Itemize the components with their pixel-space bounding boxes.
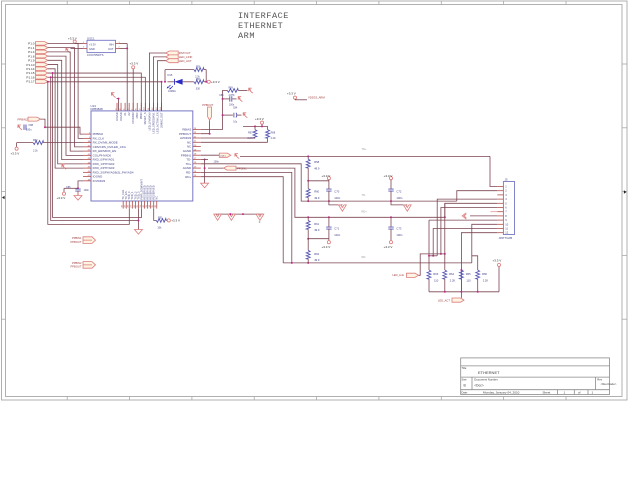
svg-text:R66: R66 bbox=[482, 272, 487, 276]
junction R64 LED_LINK bbox=[444, 253, 446, 255]
wire jog to R63 column bbox=[429, 255, 437, 257]
U13 bottom pin 32 RESERVED bbox=[144, 201, 146, 209]
junction R61 power bbox=[307, 238, 309, 240]
svg-text:110: 110 bbox=[466, 278, 471, 282]
svg-text:+3.3 V: +3.3 V bbox=[11, 152, 20, 156]
svg-text:PPBOUT: PPBOUT bbox=[202, 103, 213, 107]
U13 right pin 22 AVDD33 bbox=[193, 137, 201, 139]
LED_ACT flag shape bbox=[166, 59, 179, 63]
port flag shape P1.15 bbox=[36, 71, 49, 75]
svg-text:LED_ACT: LED_ACT bbox=[438, 299, 450, 303]
junction RD+ C71 bbox=[328, 216, 330, 218]
svg-text:R63: R63 bbox=[433, 272, 438, 276]
wire U13 bottom pin to ground bbox=[137, 209, 139, 230]
junction PPBOUT bbox=[209, 133, 211, 135]
U13 right pin 20 NC bbox=[193, 146, 201, 148]
wire P1 bus P1.4 to U13 bbox=[48, 52, 83, 151]
U13 right pin 14 RD- bbox=[193, 171, 201, 173]
wire U13 pin 14 to RD- bbox=[201, 172, 292, 263]
svg-text:R58: R58 bbox=[314, 160, 319, 164]
resistor R63 bbox=[427, 270, 431, 279]
svg-text:+3.3 V: +3.3 V bbox=[68, 36, 77, 40]
junction C86 node bbox=[77, 187, 79, 189]
U13 left pin 43 RXD_0/PHYAD1 bbox=[83, 159, 91, 161]
svg-text:2.2K: 2.2K bbox=[450, 278, 456, 282]
OSC1 pin 4 stub bbox=[116, 47, 120, 49]
U13 left pin 45 RXD_2/PHYAD3 bbox=[83, 167, 91, 169]
J5 pin 7 no-connect stub bbox=[491, 211, 498, 213]
wire rail to R67 bbox=[254, 126, 256, 129]
wire R63 column bbox=[428, 220, 430, 270]
wire power to C72 bbox=[390, 180, 392, 190]
ground below U13 bbox=[134, 230, 142, 235]
sheet outer border bbox=[2, 1, 628, 400]
svg-text:VDD33_ARM: VDD33_ARM bbox=[308, 95, 325, 99]
junction rail R66 bbox=[477, 291, 479, 293]
OSC1 pin 3 stub bbox=[116, 43, 120, 45]
svg-text:PPBIN1: PPBIN1 bbox=[72, 236, 82, 240]
svg-text:LED_ACT: LED_ACT bbox=[179, 59, 192, 63]
wire U13 pin 22 east bbox=[201, 137, 255, 139]
wire to LED_LINK flag bbox=[419, 254, 445, 275]
junction RD+ C73 bbox=[390, 216, 392, 218]
wire R69 to arrow bbox=[238, 89, 247, 91]
svg-text:IOVDD33: IOVDD33 bbox=[131, 112, 135, 124]
svg-text:100n: 100n bbox=[214, 161, 220, 164]
svg-text:J45TTGFB: J45TTGFB bbox=[499, 236, 513, 240]
wire +3.3V to R52 bbox=[17, 142, 33, 144]
wire power to C70 top bbox=[328, 180, 330, 190]
wire J5 pin 6 down bbox=[441, 208, 497, 254]
U13 left pin 48 IOVDD33 bbox=[83, 180, 91, 182]
wire R61 to power node bbox=[307, 229, 309, 238]
junction C70 TD- bbox=[328, 200, 330, 202]
R64 bottom lead bbox=[444, 279, 446, 292]
junction rail R64 bbox=[444, 291, 446, 293]
resistor R67 bbox=[253, 130, 257, 139]
svg-text:100MA: 100MA bbox=[168, 90, 176, 93]
svg-text:100n: 100n bbox=[396, 196, 402, 200]
ground at C86 bbox=[74, 196, 82, 201]
PPBIN1 offpage flag bbox=[224, 166, 236, 170]
LED_LINK flag shape bbox=[407, 273, 419, 277]
svg-text:INTERFACE: INTERFACE bbox=[238, 11, 289, 21]
U13 top pin 12 LED_SPEED/AN1 bbox=[152, 103, 154, 111]
svg-text:PPBOUT: PPBOUT bbox=[70, 240, 81, 244]
svg-text:X1: X1 bbox=[123, 112, 127, 116]
wire R67 R68 rail bbox=[243, 125, 268, 127]
border center marker right bbox=[624, 190, 627, 194]
capacitor C72 bbox=[388, 189, 393, 191]
U13 bottom pin 26 TXD_2 bbox=[134, 201, 136, 209]
junction R56/R57 bbox=[205, 81, 207, 83]
wire P1.15 branch to U13 top bbox=[53, 73, 142, 111]
ground arrow at C88 bbox=[18, 125, 22, 130]
ground arrow at C85 bbox=[238, 97, 242, 102]
wire TD+ to R58 bbox=[307, 156, 309, 159]
wire OSC1 OUT bbox=[120, 47, 128, 49]
+3.3V power symbol above U13 bbox=[132, 66, 135, 69]
connector J5 body bbox=[503, 182, 514, 235]
junction R60 TD- bbox=[307, 200, 309, 202]
capacitor C71 bbox=[326, 227, 331, 229]
oscillator OSC1 body bbox=[87, 40, 116, 52]
wire J5 pin 5 to RD+ bbox=[445, 203, 498, 217]
capacitor C70 bbox=[326, 189, 331, 191]
wire TD+ to J5 pin 1 bbox=[490, 156, 497, 186]
svg-text:D15: D15 bbox=[168, 73, 173, 77]
wire U13 pin 23 to PPBOUT flag bbox=[201, 120, 210, 134]
svg-text:+3.3 V: +3.3 V bbox=[57, 196, 66, 200]
U13 right pin 18 PPBIN1 bbox=[193, 154, 201, 156]
junction pin 17 bbox=[204, 159, 206, 161]
junction R63 column bbox=[428, 255, 430, 257]
OUT1 offpage flag bbox=[219, 153, 231, 157]
wire P1.17 bus down to U13 bottom bbox=[48, 82, 130, 225]
svg-text:TD+: TD+ bbox=[362, 147, 367, 151]
svg-text:C85: C85 bbox=[219, 95, 224, 97]
U13 left pin 40 CRS/CRS_DV/LED_CFG bbox=[83, 146, 91, 148]
svg-text:LED_ACT/AN_EN: LED_ACT/AN_EN bbox=[155, 112, 159, 133]
svg-text:49.9: 49.9 bbox=[314, 196, 320, 200]
svg-text:ETHERNET: ETHERNET bbox=[478, 370, 500, 375]
LED_LINK flag shape bbox=[166, 55, 179, 59]
svg-text:of: of bbox=[578, 391, 581, 395]
ground arrow mid right bbox=[403, 205, 411, 211]
junction P1.15 branch bbox=[52, 72, 54, 74]
wire U13 pin 17 bbox=[201, 159, 208, 161]
svg-text:R67: R67 bbox=[248, 132, 253, 135]
svg-text:INH: INH bbox=[109, 42, 114, 46]
junction pin6 at LED row bbox=[440, 253, 442, 255]
junction C84 bbox=[222, 114, 224, 116]
+3.3V power symbol at C72 bbox=[389, 177, 392, 180]
junction P1.16 branch bbox=[50, 76, 52, 78]
U13 bottom pin 34 RESERVED bbox=[150, 201, 152, 209]
junction RD- west bbox=[291, 262, 293, 264]
junction at LED row bbox=[161, 81, 163, 83]
svg-text:49.9: 49.9 bbox=[314, 258, 320, 262]
resistor R69 bbox=[227, 89, 238, 93]
svg-text:Document Number: Document Number bbox=[474, 378, 498, 382]
svg-text:P1.17: P1.17 bbox=[26, 80, 34, 84]
wire C71 to power node bbox=[328, 229, 330, 239]
wire to C84 bbox=[223, 114, 233, 116]
svg-text:100n: 100n bbox=[229, 104, 235, 106]
junction RD+ R61 bbox=[307, 216, 309, 218]
capacitor C88 bbox=[24, 125, 26, 130]
junction TD+ R58 bbox=[307, 155, 309, 157]
svg-text:OSC1: OSC1 bbox=[87, 36, 95, 40]
U13 top pin 7 IOVDD33 bbox=[132, 103, 134, 111]
wire arrow to U13 top pin bbox=[117, 99, 119, 111]
wire bottom resistor rail bbox=[429, 291, 499, 293]
svg-text:C84: C84 bbox=[233, 108, 238, 110]
J5 pin 11 bbox=[497, 228, 503, 230]
+3.3V power symbol at OSC1 bbox=[73, 40, 76, 43]
svg-text:49.9: 49.9 bbox=[314, 228, 320, 232]
svg-text:R68: R68 bbox=[271, 132, 276, 135]
+3.3V power symbol below C71 bbox=[327, 241, 330, 244]
power arrow near RXD pins bbox=[62, 164, 66, 169]
port flag shape P1.10 bbox=[36, 63, 49, 67]
wire OSC1 INH bbox=[120, 43, 128, 45]
wire VDD33_ARM bbox=[295, 99, 307, 101]
svg-text:R69: R69 bbox=[229, 87, 234, 89]
svg-text:GND: GND bbox=[89, 47, 95, 51]
svg-text:+3.3 V: +3.3 V bbox=[384, 174, 393, 178]
wire J5 pin 8 west bbox=[470, 215, 497, 217]
wire RD+ long bbox=[208, 168, 445, 217]
wire J5 pin 4 down bbox=[437, 199, 497, 256]
wire to C85 bbox=[223, 98, 230, 100]
U13 left pin 47 IOGND bbox=[83, 176, 91, 178]
PPBIN2 flag shape bbox=[28, 117, 41, 121]
wire node down bbox=[205, 70, 207, 82]
wire rail to R68 bbox=[267, 126, 269, 129]
svg-text:LED_Link: LED_Link bbox=[392, 273, 404, 277]
wire pin5 column down bbox=[444, 203, 446, 254]
svg-text:PPBIN2: PPBIN2 bbox=[18, 117, 28, 121]
wire to mid ground 2 bbox=[391, 201, 407, 205]
junction C85 bbox=[222, 98, 224, 100]
wire P1 bus P1.0 to U13 bbox=[48, 43, 83, 138]
svg-text:RESET_N: RESET_N bbox=[143, 112, 147, 124]
wire R60 to TD- bbox=[307, 197, 309, 201]
junction above U13 bbox=[118, 98, 120, 100]
U13 top pin 6 X2 bbox=[128, 103, 130, 111]
wire VDD33 stem bbox=[294, 98, 296, 101]
svg-text:IOVDD33: IOVDD33 bbox=[93, 179, 106, 183]
resistor R65 bbox=[460, 270, 464, 279]
no-connect arrow at J5 pin 8 bbox=[462, 213, 466, 219]
wire RD- long bbox=[283, 262, 472, 264]
wire R67 to U13 pin 22 bbox=[254, 137, 256, 139]
resistor R58 bbox=[306, 159, 310, 168]
svg-text:PPBOUT: PPBOUT bbox=[70, 265, 81, 269]
wire power stem down bbox=[328, 239, 330, 241]
U13 top pin 9 MDIO bbox=[140, 103, 142, 111]
junction R67 top bbox=[254, 125, 256, 127]
svg-text:<Doc>: <Doc> bbox=[474, 383, 484, 387]
svg-text:TD-: TD- bbox=[362, 193, 366, 197]
svg-text:C71: C71 bbox=[334, 227, 339, 231]
ground arrow 2 on tie bbox=[228, 214, 236, 220]
wire to LED cathode bbox=[168, 81, 175, 83]
U13 bottom pin 28 TXD_0 bbox=[128, 201, 130, 209]
svg-text:+3.3 V: +3.3 V bbox=[211, 80, 220, 84]
resistor R68 bbox=[266, 130, 270, 139]
resistor R61 bbox=[306, 221, 310, 230]
OSC1 pin 2 stub bbox=[83, 47, 87, 49]
wire R68 to U13 pin 21 bbox=[267, 138, 269, 142]
junction PPBIN2 wire bbox=[44, 126, 46, 128]
svg-text:R61: R61 bbox=[314, 222, 319, 226]
svg-text:C70: C70 bbox=[334, 190, 339, 194]
wire R56 to node bbox=[204, 69, 206, 71]
svg-text:+3.3 V: +3.3 V bbox=[322, 245, 331, 249]
svg-text:2.2K: 2.2K bbox=[247, 137, 252, 140]
wire power node to C70 bbox=[308, 180, 329, 182]
svg-text:+3.3 V: +3.3 V bbox=[384, 245, 393, 249]
junction rail R65 bbox=[460, 291, 462, 293]
port flag shape P1.9 bbox=[36, 59, 49, 63]
+3.3V power symbol at D15 bbox=[207, 80, 210, 83]
wire C85 to arrow bbox=[232, 98, 236, 100]
wire P1 bus P1.14 to U13 bbox=[48, 69, 83, 168]
J5 pin 4 bbox=[497, 198, 503, 200]
wire +3.3V down to U13 IOVDD33 bbox=[132, 69, 134, 111]
wire P1 bus P1.9 to U13 bbox=[48, 60, 83, 159]
svg-text:Monday, January 04, 2010: Monday, January 04, 2010 bbox=[483, 391, 520, 395]
wire P1.17 branch along LED row bbox=[48, 81, 162, 83]
wire RD- up to R66 bbox=[472, 256, 478, 270]
svg-text:Sheet: Sheet bbox=[543, 391, 551, 395]
+3.3V power symbol below C73 bbox=[389, 241, 392, 244]
wire LED_LINK to U13 top bbox=[153, 57, 165, 111]
svg-text:RD-: RD- bbox=[362, 255, 367, 259]
U13 left pin 46 RXD_3/SPHYAD6(S)_PHYAD4 bbox=[83, 171, 91, 173]
+3.3V power symbol at C70 bbox=[327, 177, 330, 180]
wire C86 to +3.3V bbox=[64, 187, 78, 189]
wire to mid ground 1 bbox=[329, 201, 343, 205]
resistor R60 bbox=[306, 189, 310, 198]
wire rail to +3.3V bbox=[498, 266, 500, 292]
U13 left pin 41 RX_ER/MDIX_EN bbox=[83, 150, 91, 152]
svg-text:100n: 100n bbox=[84, 189, 90, 192]
svg-text:+3.3 V: +3.3 V bbox=[171, 219, 180, 223]
port flag shape P1.1 bbox=[36, 46, 49, 50]
svg-text:100n: 100n bbox=[334, 233, 340, 237]
capacitor C73 bbox=[388, 227, 393, 229]
svg-text:R60: R60 bbox=[314, 190, 319, 194]
svg-text:X2: X2 bbox=[127, 112, 131, 116]
svg-text:29: 29 bbox=[125, 204, 127, 207]
svg-text:R64: R64 bbox=[449, 272, 454, 276]
wire analog ground tie bbox=[215, 213, 264, 215]
svg-text:25MHZ_OUT: 25MHZ_OUT bbox=[159, 112, 163, 128]
svg-text:49.9: 49.9 bbox=[314, 167, 320, 171]
PPBOUT vertical flag shape bbox=[208, 107, 212, 120]
wire TD- to J5 pin 2 bbox=[457, 191, 498, 201]
title block bbox=[461, 358, 610, 395]
U13 left pin 42 COL/PHYAD0 bbox=[83, 154, 91, 156]
svg-text:Size: Size bbox=[462, 377, 468, 381]
junction RD+ joins pin5 column bbox=[444, 216, 446, 218]
svg-text:MDIO: MDIO bbox=[139, 112, 143, 119]
U13 left pin 1 RX_CLK bbox=[83, 137, 91, 139]
U13 bottom pin 29 TX_EN bbox=[125, 201, 127, 209]
wire C73 to power bbox=[390, 229, 392, 241]
capacitor C86 bbox=[77, 187, 79, 190]
wire J5 pin 9 west bbox=[429, 219, 497, 221]
U13 top pin 8 MDC bbox=[136, 103, 138, 111]
svg-text:C72: C72 bbox=[396, 190, 401, 194]
wire RBIAS up to R69 bbox=[201, 90, 227, 129]
R65 bottom lead bbox=[460, 279, 462, 292]
ground arrow mid left bbox=[339, 205, 347, 211]
J5 pin 10 bbox=[497, 223, 503, 225]
U13 right pin 23 PPBOUT bbox=[193, 133, 201, 135]
port flag shape P1.8 bbox=[36, 54, 49, 58]
+3.3V power symbol at R52 bbox=[15, 147, 18, 150]
svg-text:J5: J5 bbox=[505, 177, 508, 181]
LED_ACT flag shape bbox=[452, 298, 464, 302]
U13 bottom pin 35 RESERVED bbox=[153, 201, 155, 209]
U13 top pin 14 25MHZ_OUT bbox=[161, 103, 163, 111]
resistor R57 bbox=[194, 80, 204, 84]
svg-text:2.2K: 2.2K bbox=[271, 137, 276, 140]
border center marker left bbox=[2, 196, 5, 200]
wire J5 pin 12 to LED_ACT bbox=[461, 233, 497, 298]
junction R62 RD- bbox=[307, 262, 309, 264]
+3.3V power symbol at C86 bbox=[62, 192, 65, 195]
svg-text:100n: 100n bbox=[396, 233, 402, 237]
U13 left pin 2 PPBIN2 bbox=[83, 133, 91, 135]
resistor R64 bbox=[443, 270, 447, 279]
U13 top pin 13 LED_ACT/AN_EN bbox=[157, 103, 159, 111]
U13 right pin 13 RD+ bbox=[193, 176, 201, 178]
svg-text:2.2k: 2.2k bbox=[195, 75, 200, 78]
wire to OSC1 pin 1 bbox=[75, 43, 83, 45]
svg-text:R51: R51 bbox=[158, 216, 163, 219]
junction pin 15 bbox=[204, 167, 206, 169]
wire P1 bus P1.10 to U13 bbox=[48, 65, 83, 164]
svg-text:R62: R62 bbox=[314, 252, 319, 256]
capacitor C85 bbox=[230, 96, 232, 101]
J5 pin 1 bbox=[497, 186, 503, 188]
wire LED top branch bbox=[165, 69, 194, 71]
svg-text:Date:: Date: bbox=[462, 390, 468, 394]
wire U13 pin 13 down bbox=[201, 177, 283, 263]
wire to R64 top bbox=[444, 254, 446, 270]
PPBIN2/PPBOUT flag pair shape bbox=[83, 262, 96, 269]
wire P1 bus P1.1 to U13 bbox=[48, 48, 83, 147]
svg-text:Title: Title bbox=[462, 366, 467, 370]
wire R57 to power bbox=[204, 81, 208, 83]
J5 pin 6 bbox=[497, 207, 503, 209]
wire R52 power stem bbox=[16, 143, 18, 148]
resistor R66 bbox=[476, 270, 480, 279]
svg-text:<RevCode>: <RevCode> bbox=[601, 382, 617, 386]
svg-text:C86: C86 bbox=[66, 186, 71, 189]
svg-text:LED_LINK/AN0: LED_LINK/AN0 bbox=[147, 112, 151, 131]
U13 bottom pin 30 TX_CLK bbox=[122, 201, 124, 209]
svg-text:110: 110 bbox=[434, 278, 439, 282]
power arrow at OUT1 bbox=[235, 154, 239, 159]
svg-text:ARM: ARM bbox=[238, 31, 255, 41]
U13 bottom pin 27 TXD_1 bbox=[131, 201, 133, 209]
ground right of U13 bbox=[201, 183, 209, 188]
svg-text:DP83848: DP83848 bbox=[91, 107, 103, 111]
U13 top pin 11 LED_LINK/AN0 bbox=[148, 103, 150, 111]
port flag shape P1.16 bbox=[36, 75, 49, 79]
resistor R52 bbox=[33, 141, 44, 145]
wire R62 to RD- bbox=[307, 259, 309, 263]
PPBIN1/PPBOUT flag pair shape bbox=[83, 237, 96, 244]
wire TD+ long bbox=[240, 155, 490, 157]
svg-text:C88: C88 bbox=[29, 124, 34, 127]
junction OSC1 OUT bbox=[126, 47, 128, 49]
svg-text:+3.3V: +3.3V bbox=[89, 42, 96, 46]
junction bottom ground column bbox=[137, 220, 139, 222]
J5 pin 12 bbox=[497, 232, 503, 234]
wire R61 C71 power rail bbox=[308, 238, 329, 240]
OSC1 pin 1 stub bbox=[83, 43, 87, 45]
wire U13 IOVDD33 down to C86 bbox=[78, 181, 83, 188]
wire RD+ to C73 bbox=[390, 217, 392, 227]
ground arrow 3 on tie bbox=[256, 214, 264, 220]
